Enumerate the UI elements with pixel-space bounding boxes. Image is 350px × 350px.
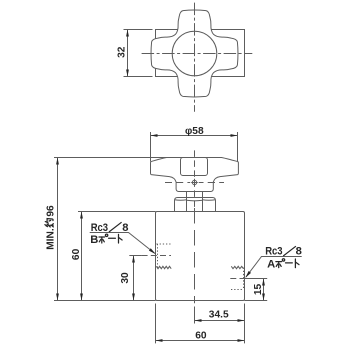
svg-text:34.5: 34.5 — [209, 310, 229, 321]
top-view horizontal centerline — [142, 53, 253, 55]
shared bottom extension at body bottom — [54, 300, 156, 302]
dim phi58 right extension — [237, 132, 239, 162]
B port centerline solid part — [129, 255, 141, 257]
front lobe boss — [181, 158, 208, 176]
top-view body rectangle — [156, 30, 245, 77]
B port vertical dotted — [157, 244, 159, 268]
svg-text:8: 8 — [122, 222, 128, 234]
stem right edge — [202, 192, 204, 198]
dim 60 left dimension line — [81, 212, 83, 301]
nut hex flat right — [202, 198, 204, 212]
dim MIN96 dimension line — [57, 158, 59, 301]
front knob top flat — [167, 157, 222, 159]
top-view hub circle — [172, 31, 217, 76]
dim 60 bottom left extension — [155, 304, 157, 344]
arrowhead A leader — [245, 271, 251, 278]
svg-text:32: 32 — [117, 46, 128, 58]
front centerline upper — [194, 150, 196, 211]
svg-text:8: 8 — [296, 246, 302, 258]
center screw mark circle — [192, 180, 196, 184]
dim 30 dimension line — [133, 256, 135, 301]
front centerline in body — [194, 208, 196, 303]
arrowheads 30 — [132, 256, 135, 263]
dim phi58 dimension line — [151, 135, 238, 137]
dim 32 bottom extension line — [124, 76, 153, 78]
stem left edge — [186, 192, 188, 198]
B port thread dotted top — [156, 243, 170, 245]
dim phi58 left extension — [150, 132, 152, 162]
arrowheads dim 32 — [126, 30, 129, 37]
svg-text:Rc3: Rc3 — [265, 246, 282, 258]
svg-text:A: A — [267, 259, 275, 271]
B label underline + leader — [90, 233, 155, 254]
A label underline + leader — [246, 257, 302, 278]
valve body — [156, 212, 245, 301]
dim 60 bottom dimension line — [156, 340, 245, 342]
B port centerline dashes — [142, 255, 171, 257]
A port zigzag top — [231, 266, 243, 268]
arrowheads 34.5 — [195, 319, 202, 322]
arrowheads 60 bottom — [156, 339, 163, 342]
kanji yaku in MIN.96 (rotated) — [45, 219, 53, 227]
center screw mark cross — [194, 179, 196, 186]
dim 34.5 dimension line — [195, 320, 245, 322]
slash B label — [109, 222, 122, 232]
label B katakana po-to — [99, 236, 105, 238]
A port extension to 15 dim — [245, 278, 268, 280]
svg-text:B: B — [90, 234, 98, 246]
dim 32 dimension line — [127, 30, 129, 77]
svg-text:15: 15 — [253, 284, 264, 296]
svg-text:φ58: φ58 — [185, 126, 204, 137]
arrowheads 15 — [262, 279, 265, 286]
svg-text:60: 60 — [195, 330, 207, 341]
bonnet nut outline — [175, 198, 216, 212]
front knob silhouette — [151, 158, 239, 192]
label A katakana po-to — [276, 261, 282, 263]
arrowheads phi58 — [151, 134, 158, 137]
front lobe axis dashed left — [165, 182, 190, 184]
svg-text:30: 30 — [120, 272, 131, 284]
svg-text:96: 96 — [46, 205, 57, 217]
dim 15 bottom extension — [245, 300, 268, 302]
B port zigzag bottom — [156, 266, 171, 268]
dim text MIN96 (rotated) — [46, 205, 57, 250]
A port dotted bottom — [231, 289, 243, 291]
arrowheads 60 left — [80, 212, 83, 219]
arrowheads MIN96 — [56, 158, 59, 165]
top-view vertical centerline — [194, 3, 196, 112]
svg-text:MIN.: MIN. — [46, 228, 57, 250]
A port centerline dashes — [230, 278, 244, 280]
slash A label — [283, 246, 296, 256]
dim 32 top extension line — [124, 29, 153, 31]
dim 60 left top extension — [78, 211, 156, 213]
dim 15 dimension line — [263, 279, 265, 301]
nut chamfer arcs — [175, 199, 187, 202]
nut hex flat left — [186, 198, 188, 212]
svg-text:Rc3: Rc3 — [91, 222, 108, 234]
A port vertical dotted — [243, 268, 245, 290]
right extension shared 34.5/60 — [244, 304, 246, 344]
dim 34.5 left extension below centerline — [194, 307, 196, 324]
top-view handwheel 4-lobe outline — [151, 10, 238, 97]
front lobe axis dashed right — [199, 182, 224, 184]
svg-text:60: 60 — [71, 248, 82, 260]
dim MIN96 top extension — [54, 157, 167, 159]
arrowhead B leader — [149, 248, 156, 254]
